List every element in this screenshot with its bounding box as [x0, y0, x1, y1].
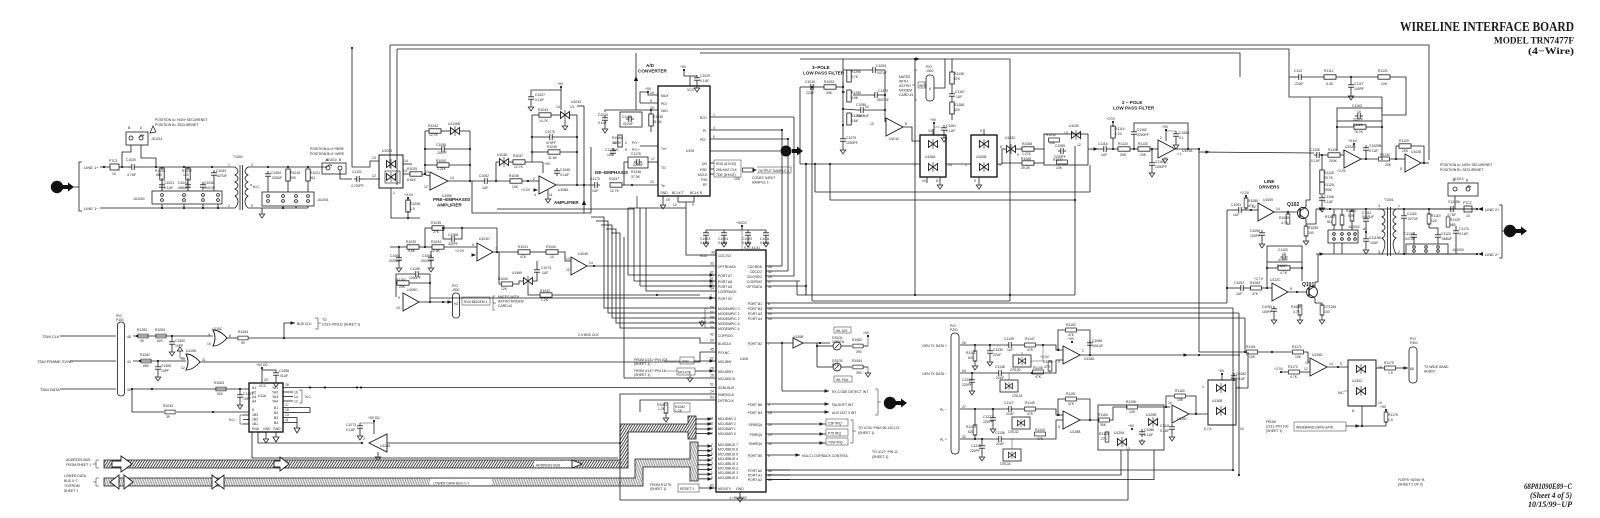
svg-text:FSR: FSR — [700, 168, 707, 172]
svg-text:MODEMPIC 3: MODEMPIC 3 — [718, 322, 740, 326]
svg-text:28: 28 — [768, 411, 772, 415]
resistor R1068 1.27K — [1022, 147, 1034, 151]
svg-text:TSW IRQ: TSW IRQ — [828, 441, 843, 445]
svg-text:22UF: 22UF — [993, 353, 1001, 357]
capacitor C1064 .0033UF — [396, 255, 402, 263]
svg-text:R1095: R1095 — [1308, 226, 1318, 230]
svg-text:ASTRO MODEM: ASTRO MODEM — [498, 300, 524, 304]
capacitor C1024 0.1UF — [602, 115, 608, 123]
resistor R1146 47K — [1033, 370, 1044, 374]
svg-text:.022UF: .022UF — [632, 163, 643, 167]
svg-text:C1113B: C1113B — [1369, 236, 1381, 240]
resistor R1040b 12K — [501, 282, 512, 286]
boxed label TDE 8KHZ — [710, 173, 714, 175]
svg-text:39K: 39K — [1100, 423, 1107, 427]
pin 14 out right — [403, 163, 412, 165]
svg-text:R1175: R1175 — [1384, 361, 1394, 365]
svg-text:FLEPS−46760−B: FLEPS−46760−B — [1398, 478, 1425, 482]
svg-text:680: 680 — [1450, 223, 1456, 227]
boxed label 256 KHZ CLK — [710, 168, 714, 170]
svg-text:CARD #1: CARD #1 — [498, 304, 512, 308]
svg-text:10K: 10K — [1177, 398, 1184, 402]
svg-text:C1222: C1222 — [983, 415, 993, 419]
capacitor C1118 .027UF — [1401, 213, 1407, 221]
arrow and label LINE 2- — [1476, 253, 1478, 255]
svg-text:R1088: R1088 — [1291, 305, 1301, 309]
svg-text:N/C: N/C — [613, 148, 619, 152]
svg-text:A2: A2 — [252, 391, 256, 395]
pin PORT A6 — [700, 280, 716, 282]
svg-text:37.0K: 37.0K — [631, 175, 641, 179]
op-amp U1045 — [571, 257, 587, 275]
svg-text:C1112B: C1112B — [1448, 200, 1460, 204]
capacitor C1162 2200PF feedback — [1131, 129, 1137, 137]
svg-text:14: 14 — [928, 129, 932, 133]
svg-text:12: 12 — [372, 174, 376, 178]
svg-text:+5V: +5V — [680, 65, 687, 69]
pin EMRSCLK — [700, 393, 716, 395]
svg-text:0.1UF: 0.1UF — [1369, 149, 1378, 153]
svg-text:C1058: C1058 — [436, 143, 446, 147]
svg-text:15: 15 — [285, 408, 289, 412]
MCUDBUS arrows to U106 — [698, 445, 712, 447]
svg-text:LOWER DATA BUS 0−7: LOWER DATA BUS 0−7 — [433, 482, 469, 486]
svg-text:R1068: R1068 — [1022, 142, 1032, 146]
resistor R1088 4.7K — [1298, 305, 1302, 315]
svg-text:POSITION B= SECURENET: POSITION B= SECURENET — [155, 123, 198, 127]
wire: U109C output to modem connector — [419, 301, 452, 303]
long feedback vertical to lower stage — [583, 106, 585, 213]
svg-text:A4: A4 — [252, 400, 256, 404]
wire: EMRSCLK run — [620, 394, 700, 443]
svg-text:909: 909 — [290, 176, 296, 180]
feedback resistor R1160 10K — [1175, 394, 1186, 398]
svg-text:PORT A6: PORT A6 — [718, 280, 732, 284]
svg-text:28: 28 — [710, 367, 714, 371]
MCUDAR arrows to U106 — [696, 418, 712, 420]
svg-text:CR130: CR130 — [1010, 368, 1021, 372]
wire: port A1 bottom run to U129A — [766, 450, 1121, 475]
svg-text:13: 13 — [1305, 361, 1309, 365]
svg-text:26: 26 — [710, 374, 714, 378]
svg-text:C1173: C1173 — [590, 177, 600, 181]
feedback wires around U108A — [496, 161, 499, 163]
svg-text:4.7K: 4.7K — [1281, 221, 1289, 225]
svg-text:+2.0V: +2.0V — [1106, 117, 1116, 121]
svg-text:U1003: U1003 — [382, 149, 392, 153]
svg-text:9: 9 — [208, 333, 210, 337]
svg-text:C1090: C1090 — [1262, 305, 1272, 309]
svg-text:13: 13 — [570, 105, 574, 109]
svg-text:R1115: R1115 — [1353, 123, 1363, 127]
svg-text:TDM DATA: TDM DATA — [40, 387, 60, 392]
svg-text:U130B: U130B — [1212, 399, 1223, 403]
pin 1 bottom — [390, 188, 392, 196]
svg-text:10: 10 — [1466, 214, 1470, 218]
capacitor C1070 470PF — [547, 134, 555, 140]
svg-text:GEN TX DATA −: GEN TX DATA − — [922, 372, 947, 376]
svg-text:1.5: 1.5 — [1388, 371, 1393, 375]
svg-text:+2.0V: +2.0V — [1274, 367, 1284, 371]
op-amp U122C — [1272, 283, 1288, 301]
svg-text:220PF: 220PF — [983, 420, 993, 424]
svg-text:12.7K: 12.7K — [610, 189, 620, 193]
svg-text:PORT B7: PORT B7 — [718, 297, 732, 301]
svg-text:8: 8 — [1290, 287, 1292, 291]
op-amp U1009 — [1258, 203, 1274, 221]
svg-text:PSYNC: PSYNC — [718, 351, 730, 355]
svg-text:GND: GND — [736, 487, 744, 491]
svg-text:39.2K: 39.2K — [1021, 166, 1031, 170]
svg-text:C1175: C1175 — [631, 152, 641, 156]
svg-text:14.7K: 14.7K — [539, 119, 549, 123]
svg-text:20K: 20K — [1402, 149, 1409, 153]
svg-text:44: 44 — [127, 360, 131, 364]
svg-text:12: 12 — [181, 366, 185, 370]
svg-text:R1262: R1262 — [140, 353, 150, 357]
wire: long top feedback run 3 — [700, 53, 1240, 77]
svg-text:POSITION B=2−WIRE: POSITION B=2−WIRE — [310, 152, 345, 156]
svg-text:1000PF: 1000PF — [409, 276, 421, 280]
svg-text:MCUDAR 3: MCUDAR 3 — [718, 417, 736, 421]
svg-text:JU1000: JU1000 — [133, 197, 145, 201]
svg-text:GND: GND — [263, 427, 271, 431]
resistor R1144 47K — [1035, 432, 1046, 436]
svg-text:N.C.: N.C. — [305, 395, 312, 399]
svg-text:10K: 10K — [512, 185, 519, 189]
svg-text:R1054: R1054 — [852, 359, 862, 363]
svg-text:10/15/99−UP: 10/15/99−UP — [1528, 499, 1573, 509]
IC U130B — [1208, 380, 1236, 425]
boxed label RDD 8KHZ — [710, 162, 714, 164]
svg-text:1.2K: 1.2K — [541, 298, 549, 302]
svg-text:0.1UF: 0.1UF — [560, 173, 569, 177]
svg-text:U101D: U101D — [479, 237, 490, 241]
svg-text:BUS 0−7: BUS 0−7 — [64, 479, 78, 483]
svg-text:MCUDSH: MCUDSH — [718, 370, 733, 374]
cursor mark — [150, 126, 156, 133]
resistor R1130b 20K — [1379, 157, 1390, 161]
capacitor C1066 .0047UF — [428, 255, 434, 263]
switched-cap filter U106A — [920, 135, 946, 177]
svg-text:76.7K: 76.7K — [1354, 130, 1364, 134]
svg-text:2200PF: 2200PF — [1137, 133, 1149, 137]
svg-text:100PF: 100PF — [1354, 87, 1364, 91]
capacitor C1138 22UF — [996, 370, 1004, 376]
wire: bottom loop y295 — [797, 294, 1075, 296]
svg-text:P101: P101 — [116, 318, 124, 322]
resistor R1125 680 — [1446, 217, 1450, 227]
svg-text:VCC: VCC — [259, 384, 267, 388]
svg-text:9: 9 — [398, 296, 400, 300]
svg-text:WITH: WITH — [899, 80, 908, 84]
capacitor C1015 22UF — [808, 84, 816, 90]
svg-text:13: 13 — [181, 357, 185, 361]
svg-text:18: 18 — [285, 383, 289, 387]
svg-text:511: 511 — [310, 176, 316, 180]
svg-text:R1128: R1128 — [1324, 183, 1334, 187]
svg-text:DPTRDATA: DPTRDATA — [718, 265, 737, 269]
svg-text:R1102: R1102 — [1346, 209, 1356, 213]
svg-text:1UF: 1UF — [482, 186, 488, 190]
svg-text:C1068: C1068 — [448, 233, 458, 237]
svg-text:PORT A0: PORT A0 — [748, 469, 762, 473]
svg-text:FROM: FROM — [1266, 420, 1276, 424]
capacitor C1089 2200PF — [1058, 148, 1066, 154]
wire — [119, 166, 130, 168]
svg-text:U1009: U1009 — [1263, 198, 1273, 202]
capacitor C1082 0.1UF — [1231, 373, 1237, 381]
svg-text:R1063: R1063 — [155, 328, 165, 332]
svg-text:U126A: U126A — [380, 444, 391, 448]
svg-text:20K: 20K — [1140, 153, 1147, 157]
svg-text:WIRELINE INTERFACE BOARD: WIRELINE INTERFACE BOARD — [1400, 19, 1574, 34]
svg-text:47K: 47K — [1027, 348, 1034, 352]
svg-text:R1043: R1043 — [538, 108, 548, 112]
wire: U1009 output — [1274, 211, 1297, 213]
resistor R1066 39.2K — [1022, 161, 1034, 165]
svg-text:1: 1 — [1398, 204, 1400, 208]
svg-text:C1066: C1066 — [422, 254, 432, 258]
svg-text:MCUDBUS 6: MCUDBUS 6 — [718, 448, 738, 452]
svg-text:C1092: C1092 — [1234, 281, 1244, 285]
note mates with astro modem — [493, 296, 496, 310]
IC U105 A/D converter — [658, 86, 710, 196]
svg-text:MODEM: MODEM — [899, 89, 912, 93]
svg-text:YA2: YA2 — [272, 391, 278, 395]
svg-text:LOWER DATA: LOWER DATA — [64, 474, 87, 478]
svg-text:OUTPUT SAMPLE 1: OUTPUT SAMPLE 1 — [758, 169, 790, 173]
svg-text:POSITION A= NON−SECURENET: POSITION A= NON−SECURENET — [155, 118, 208, 122]
svg-text:100: 100 — [1308, 231, 1314, 235]
capacitor C1085 0.1UF — [1139, 429, 1145, 437]
pin LOOPBACK — [700, 290, 716, 292]
svg-text:C1029: C1029 — [700, 74, 710, 78]
svg-text:0.1UF: 0.1UF — [598, 121, 607, 125]
resistor R1249 31.6K — [649, 114, 653, 126]
svg-text:200K: 200K — [1329, 159, 1338, 163]
svg-text:SHEET 1: SHEET 1 — [64, 489, 78, 493]
wire: DPTRCLK run — [640, 400, 700, 412]
svg-text:R1112: R1112 — [1324, 69, 1334, 73]
svg-text:U131−PIN111 (SHEET 1): U131−PIN111 (SHEET 1) — [322, 323, 360, 327]
svg-text:U1045: U1045 — [578, 252, 588, 256]
svg-text:CR132: CR132 — [1008, 430, 1019, 434]
svg-text:3: 3 — [534, 193, 536, 197]
svg-text:MCUDBUS 3: MCUDBUS 3 — [718, 462, 738, 466]
svg-text:LINE 2−: LINE 2− — [1485, 252, 1500, 257]
svg-text:620: 620 — [968, 430, 974, 434]
svg-text:19: 19 — [666, 198, 670, 202]
svg-text:LINE 2+: LINE 2+ — [1485, 207, 1500, 212]
wire: LINE 1+ lead — [100, 166, 110, 168]
svg-text:R1063: R1063 — [214, 381, 224, 385]
op-amp U108A amplifier — [539, 176, 556, 194]
svg-text:C1036: C1036 — [204, 181, 214, 185]
svg-text:LOOPBACK: LOOPBACK — [718, 290, 737, 294]
svg-text:2 − POLE: 2 − POLE — [1122, 100, 1142, 105]
wire: U101C output — [903, 127, 918, 141]
svg-text:+9.6V: +9.6V — [1348, 139, 1358, 143]
svg-text:MCUDBUS 5: MCUDBUS 5 — [718, 452, 738, 456]
svg-text:AUDIO: AUDIO — [1424, 370, 1435, 374]
wire: U101A output right and down — [1175, 148, 1199, 150]
wire: ENA east run — [252, 432, 618, 458]
svg-text:1: 1 — [393, 191, 395, 195]
svg-text:R1145: R1145 — [1025, 401, 1035, 405]
svg-text:PORT B6: PORT B6 — [748, 403, 762, 407]
svg-text:41: 41 — [710, 282, 714, 286]
resistor R1042 1.2K — [540, 293, 552, 297]
svg-text:63: 63 — [710, 484, 714, 488]
svg-text:220PF: 220PF — [970, 449, 980, 453]
wire VAG pin — [605, 110, 658, 112]
wire from C113 up to top run — [1289, 76, 1296, 78]
svg-text:R1264: R1264 — [238, 330, 248, 334]
svg-text:R1255: R1255 — [851, 91, 861, 95]
svg-text:ADDRESS BUS: ADDRESS BUS — [536, 464, 561, 468]
svg-text:14: 14 — [1276, 207, 1280, 211]
svg-text:R1047: R1047 — [609, 177, 619, 181]
svg-text:R1040: R1040 — [546, 245, 556, 249]
svg-text:1.21K: 1.21K — [437, 167, 447, 171]
pin SGNLBUS — [620, 387, 716, 389]
svg-text:1UF: 1UF — [542, 271, 548, 275]
svg-text:12K: 12K — [501, 287, 508, 291]
svg-text:0.1UF: 0.1UF — [1324, 200, 1333, 204]
svg-text:R1152: R1152 — [1066, 323, 1076, 327]
resistor R1104 200K — [1328, 153, 1340, 157]
svg-text:U126D: U126D — [1312, 353, 1323, 357]
wires: C1175 box to pins — [648, 161, 658, 163]
capacitor C1090 100PF — [1271, 306, 1277, 314]
svg-text:C1105: C1105 — [1310, 148, 1320, 152]
capacitor C1036 .047UF — [200, 182, 206, 190]
svg-text:.047UF: .047UF — [1404, 237, 1415, 241]
svg-text:R1130: R1130 — [1380, 153, 1390, 157]
svg-text:PL −: PL − — [940, 408, 947, 412]
svg-text:C1054: C1054 — [271, 171, 281, 175]
resistor R1082 360 — [853, 344, 863, 348]
wire: U130C output — [1376, 367, 1384, 369]
svg-text:20: 20 — [264, 378, 268, 382]
capacitor C1163 1000PF — [1149, 160, 1155, 168]
svg-text:R1089: R1089 — [1279, 216, 1289, 220]
svg-text:CDC702: CDC702 — [718, 254, 731, 258]
svg-text:YA1: YA1 — [272, 386, 278, 390]
switched-cap filter U100B — [971, 135, 997, 177]
svg-text:220PF: 220PF — [962, 383, 972, 387]
svg-text:5.6K: 5.6K — [851, 119, 859, 123]
svg-text:10: 10 — [207, 342, 211, 346]
capacitor C1068 330PF — [449, 236, 457, 242]
capacitor C1136 22UF — [996, 436, 1004, 442]
wire line1+ rail — [137, 166, 233, 168]
wire: secondary bottom to ground — [250, 208, 262, 212]
svg-text:C1163: C1163 — [1352, 104, 1362, 108]
svg-text:PORT B1: PORT B1 — [748, 302, 762, 306]
resistor R1264 39 — [238, 336, 248, 340]
capacitor C1121 .047UF — [1411, 232, 1417, 240]
svg-text:R1126: R1126 — [1324, 171, 1334, 175]
resistor R1012 10K — [1049, 138, 1060, 142]
svg-text:R1242: R1242 — [428, 124, 438, 128]
svg-text:BUSCLK: BUSCLK — [718, 342, 732, 346]
svg-text:R1147: R1147 — [1025, 337, 1035, 341]
svg-text:MODEMPIC 1: MODEMPIC 1 — [718, 312, 740, 316]
svg-text:MODEMPIC 2: MODEMPIC 2 — [718, 317, 740, 321]
op-amp U129C — [1172, 405, 1189, 423]
svg-text:U1028: U1028 — [1411, 150, 1421, 154]
svg-text:C1167: C1167 — [955, 90, 965, 94]
wire: modempic staircase — [591, 217, 708, 308]
pin RDD — [710, 254, 716, 256]
op-amp U128B — [1063, 411, 1080, 429]
svg-text:0.1UF: 0.1UF — [700, 79, 709, 83]
resistor R1083 47K — [1251, 286, 1262, 290]
capacitor C1034 .068UF — [185, 182, 191, 190]
capacitor C1127 22UF — [1006, 406, 1014, 412]
svg-text:14: 14 — [589, 261, 593, 265]
svg-text:47K: 47K — [520, 255, 527, 259]
capacitor C1066B .001UF — [1087, 340, 1093, 348]
wire: 2.4MHZ clock long line — [226, 337, 238, 339]
svg-text:+5V: +5V — [1162, 125, 1169, 129]
svg-text:(SHEET 1): (SHEET 1) — [1266, 429, 1282, 433]
svg-text:12.7K: 12.7K — [514, 165, 524, 169]
svg-text:U1038: U1038 — [497, 153, 507, 157]
resistor R1053 33K — [824, 85, 836, 89]
svg-text:.0068UF: .0068UF — [856, 114, 869, 118]
svg-text:10K: 10K — [1381, 82, 1388, 86]
svg-text:MCUDBUS 2: MCUDBUS 2 — [718, 467, 738, 471]
wires caps to jumper — [267, 179, 269, 192]
wire: JU1011 pins down to line — [122, 145, 131, 167]
svg-text:27K: 27K — [1101, 437, 1108, 441]
svg-text:R1083: R1083 — [1250, 281, 1260, 285]
svg-text:RXA MODEM 1: RXA MODEM 1 — [464, 300, 488, 304]
jumper block JU1001 — [262, 192, 314, 206]
buffer U126A (points left) — [369, 434, 387, 452]
svg-text:C1123: C1123 — [1441, 232, 1451, 236]
svg-text:MUX: MUX — [661, 94, 669, 98]
wire to U116 — [176, 411, 249, 413]
svg-text:47K: 47K — [1068, 402, 1075, 406]
svg-text:12: 12 — [673, 203, 677, 207]
svg-text:0.1UF: 0.1UF — [1311, 159, 1320, 163]
svg-text:U1469: U1469 — [512, 271, 522, 275]
svg-text:64: 64 — [962, 369, 966, 373]
resistor R1145 47K — [1025, 407, 1036, 411]
resistor R1140 620 — [973, 425, 977, 435]
svg-text:C1121: C1121 — [1404, 232, 1414, 236]
capacitor C1379 .0047UF — [872, 92, 880, 98]
svg-text:0.1UF: 0.1UF — [164, 186, 173, 190]
wire: latch enable from buffer — [258, 432, 362, 443]
svg-text:U105: U105 — [686, 149, 694, 153]
svg-text:U1030: U1030 — [1069, 124, 1079, 128]
wire: filter input — [800, 86, 808, 88]
wire: op-amp output — [448, 180, 482, 182]
resistor R1255 5.6K — [847, 90, 851, 102]
svg-text:12: 12 — [566, 268, 570, 272]
svg-text:AMPLIFIER: AMPLIFIER — [437, 203, 462, 208]
svg-text:PORT A4: PORT A4 — [748, 317, 762, 321]
connector C circled to filter — [710, 150, 780, 152]
svg-text:L−HL30,52: L−HL30,52 — [730, 496, 747, 500]
diode network CR132 — [1012, 417, 1030, 429]
svg-text:R1026: R1026 — [410, 202, 420, 206]
